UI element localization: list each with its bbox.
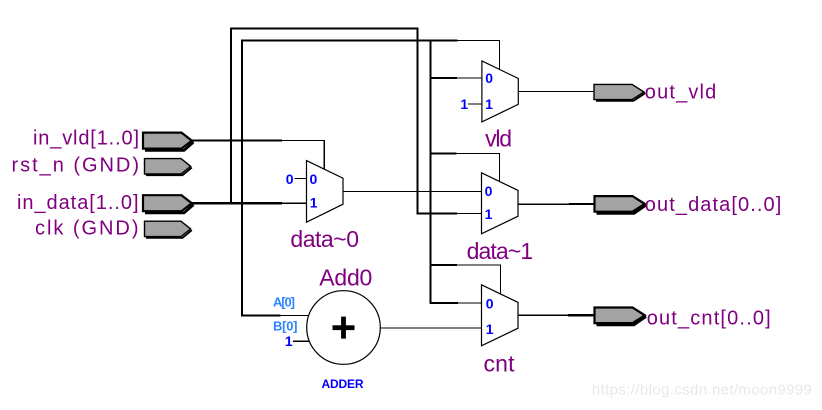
wire to data~1 select (430, 152, 501, 182)
constant 0 at data~0 (286, 171, 294, 187)
wire to cnt input 0 (430, 302, 483, 304)
input pin rst_n (145, 159, 192, 176)
svg-text:out_data[0..0]: out_data[0..0] (645, 194, 782, 216)
wire vld output to out_vld (518, 91, 594, 92)
label out_data[0..0] (645, 194, 782, 216)
svg-text:data~1: data~1 (467, 238, 534, 264)
svg-text:B[0]: B[0] (273, 319, 298, 334)
output pin out_data[0..0] (595, 196, 647, 213)
svg-text:in_vld[1..0]: in_vld[1..0] (33, 128, 139, 150)
wire constant dash at adder input B (293, 341, 310, 342)
wire constant dash at data~0 input 0 (295, 178, 308, 179)
wire in_vld bus from pin (190, 140, 325, 170)
label data~1 (467, 238, 534, 264)
svg-text:0: 0 (286, 171, 294, 187)
label vld (485, 126, 512, 152)
wire in_vld distribution net vertical (241, 39, 458, 316)
port label B[0] (273, 319, 298, 334)
label clk (GND) (35, 218, 139, 240)
wire data~1 output to out_data (518, 203, 594, 205)
mux cnt (482, 285, 519, 346)
svg-text:1: 1 (460, 96, 468, 112)
wire to adder input A (241, 314, 309, 316)
pin number 0 cnt (486, 295, 494, 311)
svg-text:0: 0 (310, 171, 318, 187)
constant 1 at vld (460, 96, 468, 112)
svg-text:0: 0 (485, 70, 493, 86)
watermark (592, 382, 812, 399)
input pin clk (145, 221, 192, 238)
pin number 1 cnt (486, 321, 494, 337)
label rst_n (GND) (12, 154, 140, 176)
svg-text:Add0: Add0 (319, 264, 372, 290)
svg-text:0: 0 (486, 295, 494, 311)
adder U Add0 circle (307, 291, 381, 365)
svg-text:A[0]: A[0] (273, 295, 295, 310)
svg-text:in_data[1..0]: in_data[1..0] (17, 192, 139, 214)
svg-text:clk (GND): clk (GND) (35, 218, 139, 240)
pin number 0 data~0 (310, 171, 318, 187)
label Add0 (319, 264, 372, 290)
svg-text:out_vld: out_vld (645, 81, 717, 103)
port label A[0] (273, 295, 295, 310)
label in_vld[1..0] (33, 128, 139, 150)
input pin in_data[1..0] (143, 195, 194, 213)
svg-text:1: 1 (485, 96, 493, 112)
label ADDER (322, 377, 364, 391)
pin number 1 data~0 (310, 195, 318, 211)
mux data~1 (482, 173, 519, 234)
pin number 0 vld (485, 70, 493, 86)
svg-text:1: 1 (485, 206, 493, 222)
mux vld (482, 61, 518, 122)
pin number 0 data~1 (485, 183, 493, 199)
output pin out_vld (594, 84, 645, 100)
svg-text:ADDER: ADDER (322, 377, 364, 391)
label cnt (484, 351, 516, 377)
mux data~0 (307, 161, 344, 223)
wire to cnt select (430, 264, 502, 295)
wire to vld select (458, 40, 501, 71)
pin number 1 vld (485, 96, 493, 112)
pin number 1 data~1 (485, 206, 493, 222)
label in_data[1..0] (17, 192, 139, 214)
wire cnt output to out_cnt (518, 314, 594, 316)
wire constant dash at vld input 1 (468, 104, 482, 105)
wire to vld input 0 (430, 77, 483, 79)
svg-text:vld: vld (485, 126, 512, 152)
svg-text:cnt: cnt (484, 351, 516, 377)
svg-text:https://blog.csdn.net/moon9999: https://blog.csdn.net/moon9999 (592, 382, 812, 399)
label out_cnt[0..0] (647, 308, 771, 330)
wire adder output to cnt input 1 (380, 327, 481, 328)
svg-text:out_cnt[0..0]: out_cnt[0..0] (647, 308, 771, 330)
constant 1 at adder B (285, 333, 293, 349)
label out_vld (645, 81, 717, 103)
svg-text:0: 0 (485, 183, 493, 199)
wire data~0 output to data~1 input 0 (343, 191, 482, 192)
svg-text:1: 1 (486, 321, 494, 337)
label data~0 (290, 226, 359, 252)
svg-text:1: 1 (310, 195, 318, 211)
wire in_data bus from pin (190, 202, 307, 204)
output pin out_cnt[0..0] (595, 308, 647, 325)
svg-text:rst_n (GND): rst_n (GND) (12, 154, 140, 176)
wire in_data feedback loop to data~1 input 1 (230, 27, 482, 214)
svg-text:1: 1 (285, 333, 293, 349)
input pin in_vld[1..0] (143, 133, 194, 151)
svg-text:data~0: data~0 (290, 226, 359, 252)
